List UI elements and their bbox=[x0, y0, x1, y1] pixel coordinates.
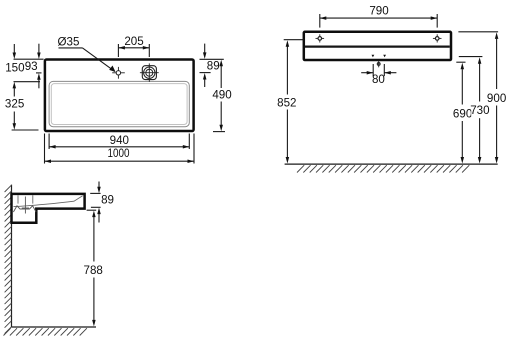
trap outline bbox=[13, 206, 36, 212]
svg-text:325: 325 bbox=[5, 98, 24, 111]
dim 150 bbox=[5, 44, 24, 74]
dim 89 (plan) bbox=[203, 44, 220, 87]
dim 93 bbox=[25, 44, 41, 89]
svg-text:205: 205 bbox=[124, 35, 143, 48]
left extension ticks bbox=[14, 58, 44, 60]
svg-text:788: 788 bbox=[84, 264, 103, 277]
dim 730 bbox=[459, 57, 490, 164]
dim 89 (side) bbox=[97, 182, 114, 223]
side extension ticks bbox=[90, 192, 100, 194]
front view: basin body bbox=[304, 32, 451, 60]
bowl slope line bbox=[14, 196, 83, 207]
dim 325 bbox=[5, 82, 24, 130]
plan view: bowl inner edge bbox=[51, 84, 187, 125]
svg-text:490: 490 bbox=[212, 88, 231, 101]
svg-text:730: 730 bbox=[470, 104, 489, 117]
svg-text:80: 80 bbox=[372, 73, 385, 86]
svg-text:1000: 1000 bbox=[108, 147, 130, 160]
floor line (side view) bbox=[12, 326, 97, 328]
floor hatching (side view) bbox=[4, 328, 87, 335]
dim 900 bbox=[458, 32, 506, 164]
plan view: bowl outer edge bbox=[49, 81, 189, 126]
dim 940 bbox=[49, 134, 189, 150]
plan view: basin outer rim 1000x490 bbox=[45, 60, 194, 132]
svg-text:940: 940 bbox=[110, 134, 129, 147]
svg-text:900: 900 bbox=[487, 92, 506, 105]
faucet hole Ø35 bbox=[112, 67, 125, 79]
faucet hole markers bbox=[372, 55, 375, 58]
dim 80 bbox=[361, 64, 396, 86]
wall face line bbox=[11, 185, 13, 327]
front view: rim front line bbox=[305, 45, 450, 47]
dim 1000 bbox=[45, 134, 195, 164]
svg-text:89: 89 bbox=[101, 193, 114, 206]
dim 790 bbox=[320, 4, 437, 27]
mounting hole right bbox=[433, 34, 442, 42]
drain opening lines bbox=[17, 195, 19, 203]
wall hatching bbox=[5, 185, 12, 334]
leader Ø35 label bbox=[58, 35, 116, 72]
side profile of basin bbox=[12, 194, 85, 223]
mounting hole left bbox=[316, 34, 325, 42]
drain axis symbol bbox=[377, 61, 381, 68]
svg-text:89: 89 bbox=[207, 59, 220, 72]
svg-text:Ø35: Ø35 bbox=[58, 35, 80, 48]
dim 788 bbox=[84, 211, 103, 327]
dim 490 bbox=[212, 60, 231, 132]
svg-text:93: 93 bbox=[25, 60, 38, 73]
floor hatching (front view) bbox=[297, 165, 469, 172]
right extension ticks bbox=[200, 58, 224, 60]
floor line (front view) bbox=[285, 163, 498, 165]
overflow/drain square bbox=[140, 63, 159, 82]
dim 852 bbox=[277, 40, 304, 164]
svg-text:790: 790 bbox=[369, 4, 388, 17]
svg-text:852: 852 bbox=[277, 96, 296, 109]
dim 690 bbox=[453, 62, 472, 163]
svg-text:150: 150 bbox=[5, 61, 24, 74]
drain centerline bbox=[24, 197, 26, 214]
dim 205 bbox=[118, 35, 149, 57]
